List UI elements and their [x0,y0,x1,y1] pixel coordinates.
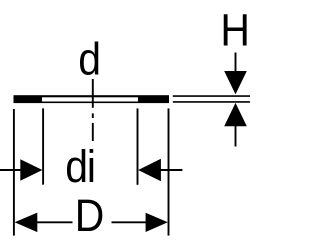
dimension H lower tail line [235,126,237,147]
dimension D arrow right [146,213,168,232]
svg-text:H: H [220,6,250,56]
extension line di left [42,108,44,184]
dimension di tail right [160,169,182,171]
washer cross-section bar [14,95,170,103]
dimension H arrow up [224,103,247,126]
dimension H upper leader line [235,53,237,73]
dimension di arrow right [138,159,161,181]
centerline lower dash [92,123,94,141]
washer bore (white interior) [42,97,138,101]
dimension D line right [112,221,149,223]
extension line di right [137,108,139,184]
centerline upper segment (d leader) [92,79,94,108]
dimension di tail left [0,169,21,171]
dimension di arrow left [20,159,42,181]
extension line bar top [173,95,250,97]
dimension D line left [37,221,73,223]
dimension D arrow left [15,213,38,233]
extension line bar bottom [173,101,250,103]
centerline dot [92,113,94,118]
svg-text:d: d [78,35,101,85]
extension line D left [13,109,15,236]
svg-text:di: di [65,142,96,192]
svg-text:D: D [75,191,105,241]
dimension H arrow down [224,71,247,94]
extension line D right [168,108,170,235]
